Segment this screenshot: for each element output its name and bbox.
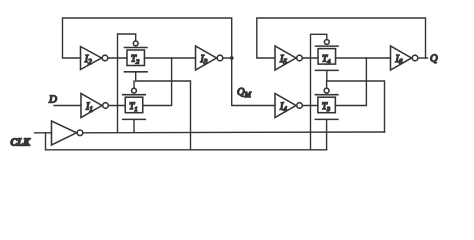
transmission gate T2 <box>124 41 147 72</box>
svg-text:I6: I6 <box>395 54 403 66</box>
svg-text:T2: T2 <box>131 54 140 66</box>
wire: T1 output right and up to node X rail <box>143 58 172 106</box>
wire: CLKbar rail from clock inverter to slave gate-line vertical <box>83 131 385 134</box>
svg-text:D: D <box>48 94 57 106</box>
wire: T4 NMOS gate stub down to gate line <box>326 70 328 81</box>
wire: slave feedback top rail from Q down-over to I5 input <box>257 18 426 58</box>
wire: I6 output to Q <box>418 57 428 59</box>
wire: T2 output to I3 input (node X rail) <box>144 57 195 59</box>
svg-text:T1: T1 <box>129 101 137 113</box>
wire: I5 output to T4 left <box>302 57 318 59</box>
wire: T2 PMOS gate hook <box>118 34 136 132</box>
svg-text:I5: I5 <box>279 54 287 66</box>
wire: I4 output to T3 left <box>302 105 318 107</box>
wire: I3 output to node QM <box>223 57 232 59</box>
svg-text:T3: T3 <box>322 101 331 113</box>
clock inverter <box>52 121 83 145</box>
wire: I2 output to T2 left <box>108 57 127 59</box>
svg-text:Q: Q <box>430 54 438 65</box>
inverter I6 <box>391 46 418 70</box>
transmission gate T1 <box>123 88 146 119</box>
inverter I3 <box>196 46 223 70</box>
wire: slave gate line to CLKbar rail <box>327 81 385 132</box>
inverter I5 <box>275 46 302 70</box>
wire: T3 output right and up to node Y rail <box>335 58 366 106</box>
svg-text:QM: QM <box>237 87 252 99</box>
wire: T1 NMOS gate stub down <box>133 119 135 132</box>
inverter I1 <box>81 94 108 118</box>
wire: CLK rail from branch to T3 NMOS stub <box>46 149 327 151</box>
wire: T1 PMOS gate bubble stub up to gate line <box>133 81 135 88</box>
svg-text:I1: I1 <box>85 102 93 114</box>
inverter I4 <box>275 94 302 118</box>
inverter I2 <box>81 47 108 70</box>
wire: T2 NMOS gate stub down to gate line <box>135 72 137 81</box>
wire: T4 output to I6 input (node Y rail) <box>336 57 391 59</box>
transmission gate T4 <box>316 40 339 71</box>
wire: master gate line to CLK rail <box>136 81 191 150</box>
wire: CLK branch down to CLK rail <box>45 133 47 150</box>
transmission gate T3 <box>315 88 338 119</box>
wire: CLK input to clock inverter <box>35 132 52 134</box>
wire: master feedback top rail from node QM up-over to I2 input <box>63 18 232 58</box>
wire: T3 PMOS gate bubble stub up to gate line <box>326 81 328 88</box>
svg-text:I2: I2 <box>84 54 92 66</box>
svg-text:I3: I3 <box>200 54 208 66</box>
wire: node QM down to I4 input <box>232 58 275 106</box>
wire: T4 PMOS gate hook <box>311 34 327 150</box>
node QM junction dot <box>230 56 234 60</box>
svg-text:CLK: CLK <box>11 138 32 149</box>
wire: D input to I1 <box>54 105 81 107</box>
wire: T3 NMOS gate stub down <box>326 119 328 149</box>
wire: I1 output to T1 left <box>108 105 125 107</box>
svg-text:I4: I4 <box>279 102 287 114</box>
